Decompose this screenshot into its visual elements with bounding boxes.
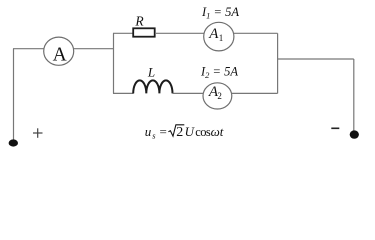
svg-text:cos: cos bbox=[195, 125, 211, 139]
svg-text:A: A bbox=[53, 45, 67, 66]
node left terminal dot bbox=[9, 139, 18, 146]
ammeter A2 bbox=[203, 83, 232, 109]
wire resistor to ammeter A1 bbox=[155, 32, 204, 34]
label plus terminal bbox=[33, 128, 43, 138]
svg-text:I1 = 5A: I1 = 5A bbox=[201, 5, 239, 21]
svg-text:R: R bbox=[134, 14, 144, 29]
ammeter A1 bbox=[204, 22, 234, 51]
svg-text:2: 2 bbox=[217, 91, 222, 101]
svg-text:u: u bbox=[145, 124, 152, 139]
svg-text:U: U bbox=[185, 124, 196, 139]
svg-text:L: L bbox=[147, 64, 155, 79]
svg-text:s: s bbox=[152, 131, 156, 141]
ammeter A bbox=[44, 37, 74, 65]
node right terminal dot bbox=[350, 130, 359, 138]
wire ammeter A1 to right junction bbox=[234, 32, 278, 34]
wire right terminal vertical bbox=[353, 59, 355, 132]
wire right junction vertical bbox=[277, 33, 279, 93]
inductor L bbox=[133, 80, 172, 93]
svg-text:ωt: ωt bbox=[211, 124, 224, 139]
wire left junction vertical bbox=[113, 33, 115, 93]
wire left horizontal to ammeter bbox=[13, 48, 44, 50]
wire bottom branch to inductor bbox=[113, 92, 134, 94]
wire left terminal vertical bbox=[13, 49, 15, 140]
wire inductor to ammeter A2 bbox=[173, 92, 204, 94]
resistor R bbox=[133, 28, 155, 36]
svg-text:1: 1 bbox=[219, 33, 224, 43]
wire ammeter A to junction bbox=[74, 48, 114, 50]
svg-text:=: = bbox=[160, 124, 167, 139]
wire right horizontal bbox=[278, 58, 354, 60]
svg-text:A: A bbox=[208, 26, 219, 42]
svg-text:2: 2 bbox=[176, 125, 183, 140]
label source voltage formula bbox=[145, 124, 224, 141]
wire ammeter A2 to right junction bbox=[232, 92, 278, 94]
wire top branch to resistor bbox=[113, 32, 133, 34]
label minus terminal bbox=[331, 127, 339, 129]
svg-text:I2 = 5A: I2 = 5A bbox=[200, 64, 238, 80]
